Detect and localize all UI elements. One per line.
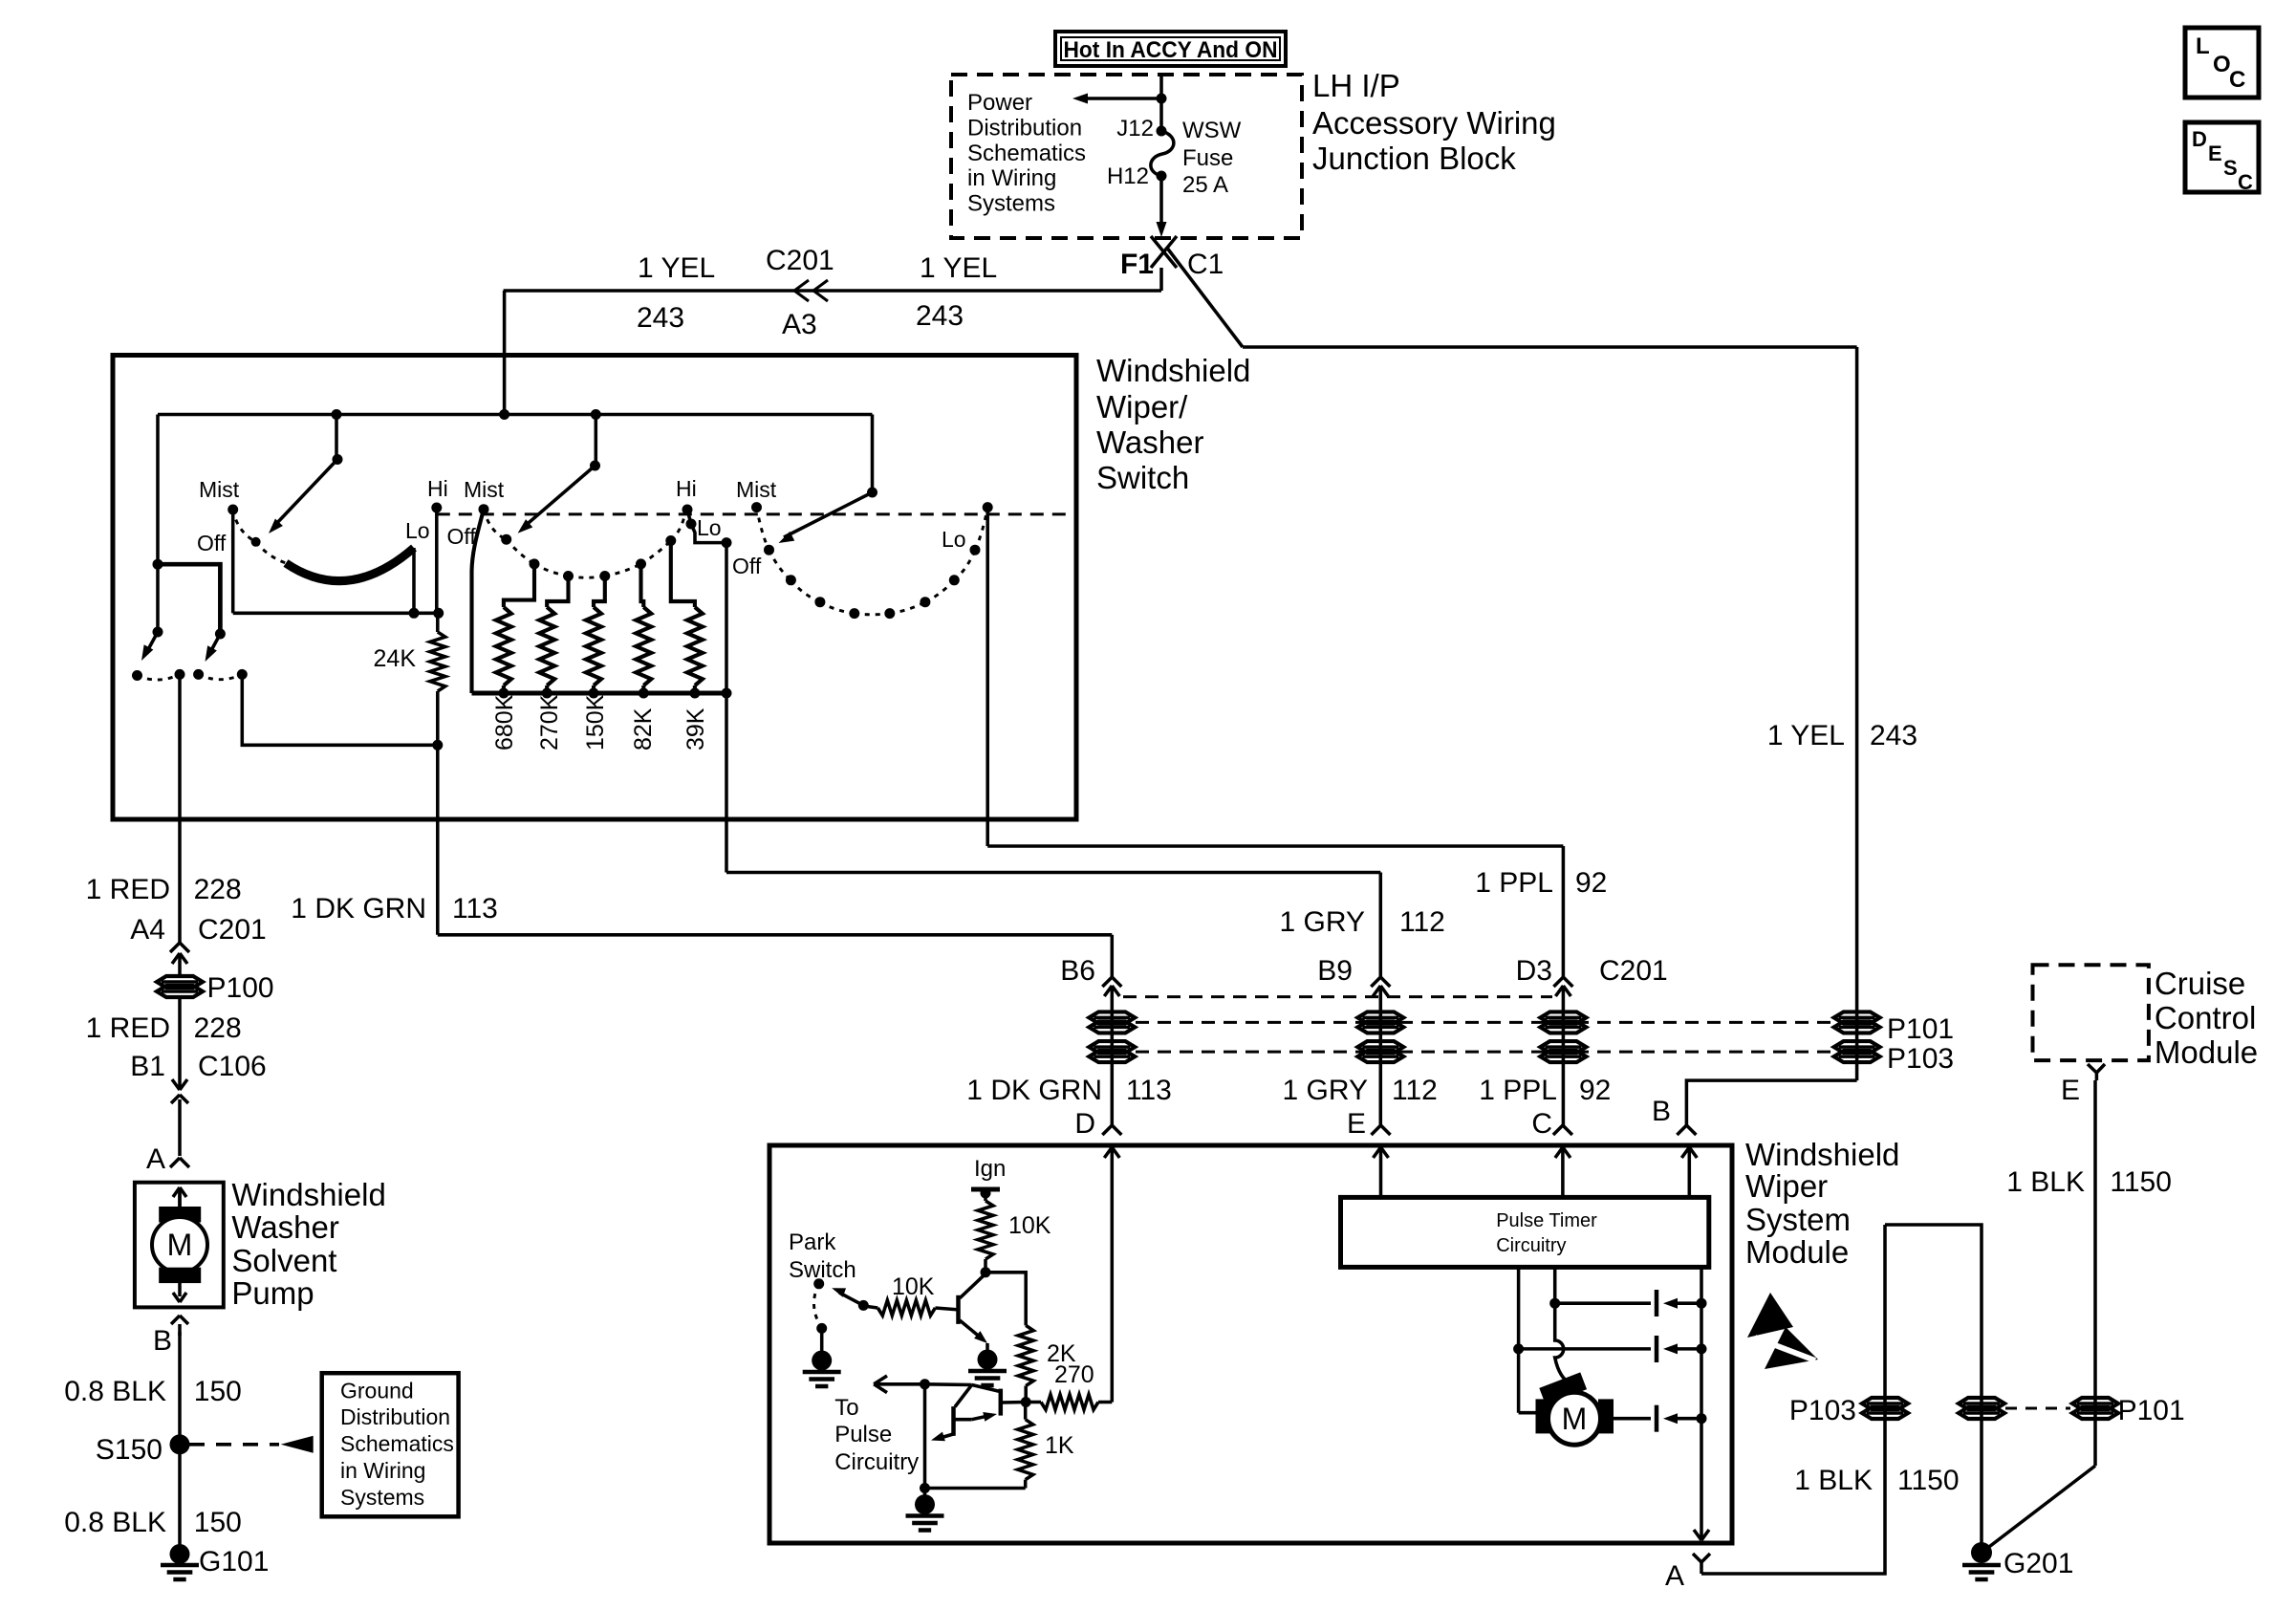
- ground G101: [170, 1544, 190, 1564]
- wire 1 PPL down to D3: [1562, 846, 1566, 977]
- svg-text:Wiper: Wiper: [1745, 1168, 1828, 1204]
- connector A4/C201 chevron: [170, 943, 180, 952]
- ground at pulse circuit: [915, 1494, 935, 1514]
- svg-text:Windshield: Windshield: [1096, 353, 1250, 388]
- wash switch 1 throw contact a: [132, 670, 142, 681]
- connector B6 chevron: [1102, 977, 1112, 987]
- svg-text:WSW: WSW: [1182, 118, 1242, 143]
- resistor 39K: [687, 607, 703, 685]
- resistor bus wire: [472, 691, 727, 696]
- wire 1 GRY exits box: [725, 543, 728, 873]
- switch2 Hi contact: [682, 505, 693, 515]
- resistor 680K lead: [504, 564, 534, 607]
- ESD symbol triangle 2: [1765, 1327, 1818, 1369]
- wire fuse output arrow down: [1159, 176, 1163, 224]
- wash switch 2 throw contact b: [237, 669, 248, 680]
- connector pin B chevron: [1677, 1125, 1686, 1135]
- inline connector P101 row B6: [1089, 1012, 1135, 1023]
- To Pulse Circuitry arrow: [874, 1382, 924, 1386]
- svg-text:P103: P103: [1887, 1043, 1954, 1075]
- ground G201: [1971, 1542, 1992, 1563]
- ESD symbol triangle 1: [1747, 1293, 1793, 1338]
- switch2 Hi-Lo lead: [687, 510, 691, 524]
- wire pin E to pulse timer: [1379, 1160, 1383, 1197]
- wire Q1 emitter to ground: [986, 1343, 989, 1351]
- svg-text:System: System: [1745, 1202, 1851, 1237]
- svg-text:Windshield: Windshield: [231, 1177, 385, 1212]
- node pulse takeoff: [920, 1379, 930, 1389]
- svg-text:S150: S150: [96, 1434, 162, 1466]
- svg-text:D: D: [2192, 127, 2207, 151]
- wash switch 1 dashed travel arc: [138, 674, 181, 680]
- svg-text:F1: F1: [1120, 249, 1154, 280]
- dashed harness line P103: [1136, 1051, 1833, 1054]
- pump motor top plate: [160, 1207, 201, 1223]
- svg-text:C201: C201: [1599, 955, 1668, 987]
- inline connector P101 right stack: [1834, 1012, 1880, 1023]
- junction block: Hot In ACCY And ON box: [1055, 32, 1286, 66]
- module pin A arrow down: [1700, 1530, 1702, 1540]
- wiper switch 3 arrow: [871, 415, 875, 493]
- module pin D arrow: [1111, 1147, 1115, 1160]
- switch2 position dot off: [501, 534, 511, 545]
- brush 2 arrow: [1663, 1343, 1678, 1354]
- svg-text:150K: 150K: [582, 694, 609, 751]
- dashed detent line: [437, 512, 1074, 515]
- switch2 Lo lead to bus: [691, 524, 726, 543]
- svg-text:1150: 1150: [1897, 1465, 1960, 1496]
- svg-text:A: A: [1665, 1560, 1684, 1592]
- wire switch feed bus horizontal: [158, 413, 873, 417]
- svg-text:Park: Park: [789, 1229, 836, 1255]
- svg-text:D: D: [1074, 1108, 1095, 1140]
- switch2 position dot 39K: [665, 535, 676, 546]
- inline connector P103 row B9: [1357, 1041, 1403, 1053]
- svg-text:1 BLK: 1 BLK: [2006, 1166, 2085, 1198]
- svg-text:1 YEL: 1 YEL: [920, 252, 997, 284]
- svg-text:G101: G101: [199, 1546, 269, 1577]
- svg-text:B: B: [1652, 1096, 1671, 1127]
- ground at park switch: [812, 1351, 832, 1371]
- resistor 82K: [636, 607, 651, 685]
- connector pin D chevron at module: [1102, 1125, 1112, 1135]
- svg-text:A: A: [146, 1143, 165, 1175]
- svg-text:Mist: Mist: [736, 477, 777, 502]
- wire C106 to pump pin A: [178, 1099, 182, 1156]
- wash switch 2 throw contact a: [193, 669, 204, 680]
- wash switch 2 dashed travel arc: [199, 674, 243, 679]
- wire 1 GRY down to B9: [1379, 873, 1383, 978]
- wire 10K to collector node: [984, 1259, 987, 1273]
- wire pulse timer to motor top: [1553, 1267, 1557, 1303]
- inline connector P103 row D3: [1540, 1041, 1586, 1053]
- svg-text:150: 150: [194, 1376, 242, 1407]
- node feed left: [332, 409, 342, 420]
- svg-text:1 RED: 1 RED: [86, 1012, 170, 1044]
- wire brush 1 horizontal: [1555, 1301, 1651, 1305]
- transistor Q3 emitter: [939, 1434, 955, 1439]
- svg-text:M: M: [1562, 1402, 1588, 1436]
- svg-text:G201: G201: [2004, 1548, 2073, 1579]
- svg-text:B1: B1: [130, 1051, 165, 1082]
- svg-text:0.8 BLK: 0.8 BLK: [64, 1507, 166, 1538]
- switch3 dashed position arc: [757, 508, 769, 551]
- svg-text:0.8 BLK: 0.8 BLK: [64, 1376, 166, 1407]
- wash switch 2 contact: [215, 629, 226, 640]
- resistor 82K lead: [641, 564, 644, 607]
- wire 1 YEL 243 horizontal: [504, 289, 1161, 293]
- wire to 1K bottom: [925, 1487, 1026, 1490]
- Ign terminal: [971, 1187, 1000, 1192]
- resistor 150K: [586, 607, 601, 685]
- svg-text:Switch: Switch: [789, 1257, 856, 1283]
- wire 1 GRY horizontal: [726, 871, 1380, 875]
- transistor Q3: [951, 1406, 956, 1436]
- switch1 wiper thick arc: [286, 548, 414, 581]
- svg-text:P103: P103: [1789, 1395, 1856, 1426]
- svg-text:Pulse Timer: Pulse Timer: [1496, 1210, 1597, 1231]
- fuse WSW 25A: [1151, 131, 1174, 176]
- switch2 Mist lead curve to resistor bus: [472, 510, 485, 693]
- svg-text:C106: C106: [198, 1051, 267, 1082]
- svg-text:Solvent: Solvent: [231, 1243, 336, 1278]
- svg-text:D3: D3: [1516, 955, 1552, 987]
- svg-text:Module: Module: [1745, 1234, 1849, 1270]
- transistor Q3 collector: [955, 1385, 972, 1407]
- switch1 Hi contact: [431, 503, 442, 513]
- svg-text:Circuitry: Circuitry: [834, 1449, 919, 1475]
- resistor 10K vertical: [978, 1201, 993, 1259]
- wash switch 1 throw contact b: [175, 669, 185, 680]
- wire brush 3 horizontal: [1614, 1417, 1652, 1421]
- inline connector P103 bottom: [1862, 1398, 1908, 1409]
- svg-text:S: S: [2223, 156, 2238, 180]
- wiper switch 1 arrow: [335, 415, 338, 460]
- node 2K/270/1K junction: [1021, 1397, 1031, 1407]
- connector B9 arrow: [1379, 986, 1383, 1125]
- wire pulse timer to motor branch A: [1517, 1267, 1521, 1349]
- svg-text:92: 92: [1579, 1075, 1611, 1106]
- switch2 position dot 82K: [636, 558, 646, 569]
- wash switch 1 arm arrow: [146, 632, 158, 653]
- wire pin A to P103: [1701, 1225, 1885, 1574]
- svg-text:C1: C1: [1187, 249, 1224, 280]
- resistor 1K: [1018, 1420, 1033, 1480]
- Pulse Timer Circuitry box: [1341, 1197, 1709, 1267]
- inline connector P101 row D3: [1540, 1012, 1586, 1023]
- svg-text:Hi: Hi: [427, 476, 448, 501]
- module pin A chevron below box: [1693, 1554, 1701, 1562]
- svg-text:L: L: [2196, 33, 2210, 59]
- wire right feed to module pin B: [1686, 1080, 1856, 1125]
- svg-text:Lo: Lo: [405, 518, 430, 543]
- resistor 2K: [1018, 1325, 1033, 1385]
- wire C1 diagonal to right feed: [1166, 247, 1243, 347]
- wire node to Q2 collector: [925, 1382, 972, 1386]
- brush 2 plate: [1655, 1336, 1659, 1362]
- LH I/P Accessory Wiring Junction Block dashed box: [951, 75, 1302, 238]
- connector pin E chevron at module: [1372, 1125, 1381, 1135]
- inline connector center bottom: [1959, 1398, 2004, 1409]
- wire 2K to node: [1024, 1386, 1028, 1403]
- wire P101 to G201 diagonal: [1982, 1466, 2095, 1553]
- switch1 Hi lead / 24K top: [435, 508, 439, 613]
- connector D3 arrow: [1562, 986, 1566, 1125]
- svg-text:1 YEL: 1 YEL: [638, 252, 715, 284]
- transistor Q2 emitter: [972, 1416, 990, 1420]
- node wash switch tap: [153, 559, 163, 570]
- connector B1/C106 chevron: [171, 1095, 180, 1103]
- wire top feed to right side: [1243, 345, 1857, 349]
- wire P100 to C106: [178, 997, 182, 1078]
- wire feed left vertical: [156, 415, 160, 633]
- splice S150: [170, 1434, 190, 1454]
- Windshield Wiper/Washer Switch box: [113, 356, 1076, 820]
- svg-text:Lo: Lo: [942, 527, 966, 552]
- svg-text:Fuse: Fuse: [1182, 145, 1233, 171]
- svg-text:Mist: Mist: [199, 477, 240, 502]
- brush 3 arrow: [1663, 1413, 1678, 1424]
- svg-text:Systems: Systems: [967, 191, 1055, 217]
- svg-text:B6: B6: [1060, 955, 1095, 987]
- wire pin B to pulse timer: [1688, 1160, 1692, 1197]
- svg-text:270K: 270K: [536, 694, 563, 751]
- wire junction to ground: [923, 1489, 927, 1496]
- wire motor branch A down: [1517, 1349, 1521, 1413]
- svg-text:270: 270: [1054, 1361, 1094, 1388]
- switch1 Mist lead: [231, 510, 235, 613]
- svg-text:B: B: [153, 1325, 172, 1357]
- switch2 dashed position arc: [484, 510, 507, 540]
- svg-text:Accessory Wiring: Accessory Wiring: [1312, 105, 1556, 141]
- svg-text:228: 228: [194, 1012, 242, 1044]
- resistor 270: [1041, 1395, 1098, 1410]
- svg-text:Windshield: Windshield: [1745, 1137, 1899, 1172]
- svg-text:82K: 82K: [630, 707, 657, 751]
- node brush 3 at A wire: [1697, 1413, 1707, 1424]
- svg-text:in Wiring: in Wiring: [967, 165, 1056, 191]
- svg-text:Distribution: Distribution: [340, 1404, 450, 1429]
- svg-text:24K: 24K: [374, 645, 417, 672]
- svg-text:A3: A3: [782, 309, 817, 340]
- LOC box top right: [2185, 28, 2259, 98]
- svg-text:P100: P100: [207, 972, 274, 1004]
- pump pin A chevron: [170, 1158, 180, 1167]
- svg-text:1 GRY: 1 GRY: [1283, 1075, 1369, 1106]
- wire washer pump feed down: [178, 674, 182, 943]
- svg-text:O: O: [2213, 52, 2231, 77]
- wire park switch to ground: [820, 1328, 824, 1352]
- resistor 10K horizontal: [862, 1305, 864, 1308]
- resistor 270K lead: [547, 577, 568, 608]
- svg-text:1 DK GRN: 1 DK GRN: [291, 893, 426, 925]
- switch1 Lo lead: [412, 548, 416, 613]
- wire to second wash contact: [158, 564, 220, 634]
- svg-text:Distribution: Distribution: [967, 115, 1082, 141]
- dashed harness line top: [1123, 995, 1552, 998]
- connector B6 arrow: [1111, 986, 1115, 1125]
- Windshield Wiper System Module box: [769, 1145, 1732, 1543]
- wire collector node to 2K: [986, 1273, 1026, 1326]
- switch2 position dot 270K: [563, 571, 574, 581]
- svg-text:1 DK GRN: 1 DK GRN: [966, 1075, 1102, 1106]
- wire motor top with hump: [1555, 1303, 1570, 1384]
- svg-text:C201: C201: [198, 914, 267, 946]
- svg-text:1K: 1K: [1045, 1432, 1074, 1459]
- inline connector P103 row B6: [1089, 1041, 1135, 1053]
- node feed center: [499, 409, 509, 420]
- svg-text:Lo: Lo: [697, 515, 722, 540]
- svg-text:P101: P101: [2118, 1395, 2185, 1426]
- wire 1 YEL 243 right vertical: [1855, 347, 1859, 1080]
- svg-text:680K: 680K: [491, 694, 518, 751]
- svg-text:113: 113: [452, 893, 498, 925]
- node 24K bottom: [432, 740, 443, 751]
- pump pin B chevron: [171, 1316, 180, 1324]
- module pin C arrow: [1561, 1147, 1565, 1160]
- wire 1 PPL exits box: [986, 508, 989, 846]
- inline connector P101 bottom: [2072, 1398, 2118, 1409]
- brush 3 plate: [1655, 1405, 1659, 1432]
- wire 1 YEL drop into switch box: [503, 291, 507, 415]
- svg-text:25 A: 25 A: [1182, 172, 1228, 198]
- svg-text:112: 112: [1392, 1075, 1438, 1106]
- node brush 1 takeoff: [1549, 1298, 1560, 1309]
- node Q1 collector: [981, 1267, 991, 1277]
- wire F1 down to 1 YEL feed: [1159, 268, 1163, 291]
- wire 1 DK GRN exits box: [436, 745, 440, 935]
- svg-text:Module: Module: [2155, 1034, 2258, 1070]
- dashed connector link bottom: [2005, 1407, 2070, 1410]
- transistor Q2: [999, 1389, 1004, 1416]
- Ground Distribution Schematics box: [322, 1373, 459, 1516]
- svg-text:B9: B9: [1317, 955, 1353, 987]
- module pin E arrow: [1379, 1147, 1383, 1160]
- svg-text:J12: J12: [1116, 116, 1154, 141]
- inline connector P100: [157, 976, 203, 988]
- svg-text:H12: H12: [1107, 163, 1149, 189]
- svg-text:Pulse: Pulse: [834, 1422, 892, 1447]
- wash switch 2 arm arrow: [209, 634, 220, 654]
- resistor 680K: [496, 607, 511, 685]
- connector pin C chevron at module: [1553, 1125, 1563, 1135]
- switch2 position dot 680K: [530, 558, 540, 569]
- node feed right: [591, 409, 601, 420]
- park switch lower contact: [816, 1323, 827, 1334]
- switch2 Mist contact: [479, 504, 489, 514]
- node 24K top junction: [433, 608, 444, 619]
- svg-text:Off: Off: [197, 531, 227, 555]
- svg-text:1 BLK: 1 BLK: [1794, 1465, 1873, 1496]
- svg-text:10K: 10K: [1008, 1212, 1051, 1239]
- svg-text:112: 112: [1399, 906, 1445, 938]
- svg-text:C: C: [2238, 170, 2253, 194]
- wash switch 1 contact: [153, 627, 163, 638]
- switch3 Lo contact: [983, 502, 993, 512]
- wire 1 DK GRN horizontal: [438, 933, 1113, 937]
- wire S150 to G101: [178, 1445, 182, 1555]
- svg-text:C201: C201: [766, 245, 834, 276]
- wire wash 2 to 24K bottom node: [242, 674, 438, 745]
- dashed harness line P101: [1136, 1021, 1833, 1024]
- svg-text:Ground: Ground: [340, 1378, 414, 1403]
- svg-text:E: E: [2061, 1075, 2080, 1106]
- transistor Q1: [956, 1295, 961, 1324]
- pump motor arrow up: [178, 1193, 182, 1207]
- inline connector P101 row B9: [1357, 1012, 1403, 1023]
- svg-text:Control: Control: [2155, 1000, 2256, 1035]
- wire P103 up and over to G201: [1885, 1225, 1982, 1553]
- wire pump to S150: [178, 1332, 182, 1445]
- connector B9 chevron: [1371, 977, 1380, 987]
- wire 1 PPL horizontal: [987, 844, 1563, 848]
- brush 1 arrow: [1663, 1298, 1678, 1309]
- svg-text:Pump: Pump: [231, 1275, 314, 1311]
- svg-text:1 GRY: 1 GRY: [1280, 906, 1366, 938]
- svg-text:Washer: Washer: [1096, 424, 1203, 460]
- cruise pin E chevron: [2088, 1064, 2096, 1073]
- svg-text:1 PPL: 1 PPL: [1479, 1075, 1557, 1106]
- brush 1 plate: [1655, 1290, 1659, 1316]
- node Lo junction: [409, 608, 420, 619]
- wire pin C to pulse timer: [1561, 1160, 1565, 1197]
- svg-text:P101: P101: [1887, 1013, 1954, 1045]
- svg-text:243: 243: [637, 302, 684, 334]
- wire 1 DK GRN down to B6: [1111, 935, 1115, 977]
- svg-text:Wiper/: Wiper/: [1096, 389, 1188, 424]
- ground at Q1 emitter: [978, 1350, 998, 1370]
- svg-text:Switch: Switch: [1096, 460, 1189, 495]
- node motor branch A: [1513, 1343, 1524, 1354]
- svg-text:Off: Off: [447, 524, 477, 549]
- svg-text:243: 243: [916, 300, 964, 332]
- svg-text:1 YEL: 1 YEL: [1767, 720, 1845, 751]
- svg-text:Schematics: Schematics: [340, 1431, 454, 1456]
- arrow to power distribution (left): [1087, 97, 1161, 100]
- pump motor bottom plate: [160, 1268, 201, 1282]
- switch2 Lo contact: [686, 519, 697, 530]
- svg-text:Washer: Washer: [231, 1209, 338, 1245]
- svg-text:E: E: [1347, 1108, 1366, 1140]
- svg-text:Hi: Hi: [676, 476, 697, 501]
- resistor 150K lead: [594, 577, 605, 608]
- svg-text:in Wiring: in Wiring: [340, 1458, 425, 1483]
- wire Q2 base to node: [1002, 1401, 1026, 1404]
- switch3 Mist contact: [751, 502, 762, 512]
- svg-text:92: 92: [1575, 867, 1607, 899]
- svg-text:LH I/P: LH I/P: [1312, 68, 1400, 103]
- node brush 2 at A wire: [1697, 1343, 1707, 1354]
- Windshield Washer Solvent Pump box: [135, 1183, 224, 1308]
- svg-text:228: 228: [194, 874, 242, 905]
- switch1 Mist contact: [227, 505, 238, 515]
- node junction at power feed: [1157, 94, 1167, 104]
- switch2 position dot 150K: [599, 571, 610, 581]
- svg-text:243: 243: [1870, 720, 1917, 751]
- svg-text:M: M: [167, 1228, 193, 1262]
- wire pulse timer to pin A: [1700, 1267, 1703, 1540]
- svg-text:Circuitry: Circuitry: [1496, 1235, 1566, 1256]
- svg-text:C: C: [2229, 67, 2245, 93]
- connector D3 chevron: [1553, 977, 1563, 987]
- park switch arm arrow: [858, 1300, 869, 1311]
- wire Ign to 10K: [984, 1193, 987, 1201]
- switch1 dashed arc Mist to Off: [233, 510, 256, 542]
- svg-text:1 RED: 1 RED: [86, 874, 170, 905]
- connector C1 X symbol: [1151, 236, 1177, 268]
- node emitter ground junction: [920, 1483, 930, 1493]
- connector C201 A3 chevrons: [794, 280, 828, 301]
